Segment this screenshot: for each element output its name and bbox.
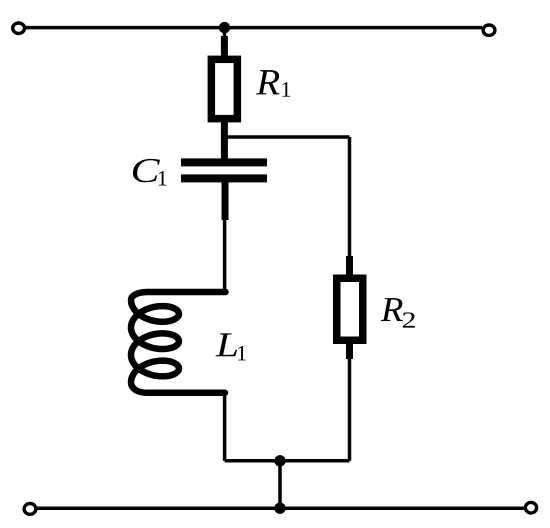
wire R1 to C1 lead [221, 122, 228, 159]
wire C1 bottom lead [222, 182, 229, 220]
wire junction vertical [278, 461, 282, 508]
label C1 [133, 159, 160, 182]
wire top horizontal [25, 26, 482, 30]
label R1 [256, 70, 280, 94]
wire C1 to L1 [223, 219, 227, 292]
node junction dot top [219, 22, 230, 33]
label L1 [216, 333, 238, 356]
wire bottom horizontal [36, 506, 525, 510]
wire R1 top lead [223, 28, 227, 40]
terminal bottom-left [24, 504, 36, 515]
terminal bottom-right [525, 502, 536, 513]
wire branch to R2 horizontal [225, 135, 350, 139]
wire R2 top vertical [348, 137, 352, 258]
node junction dot mid [274, 455, 285, 466]
wire R2 bottom vertical [348, 358, 352, 461]
wire bottom horizontal link [225, 459, 350, 463]
wire L1 bottom vertical [223, 393, 227, 461]
resistor R1 [211, 59, 237, 118]
terminal top-left [13, 23, 25, 33]
wire R2 bottom lead [346, 344, 353, 359]
resistor R2 [337, 278, 363, 340]
terminal top-right [483, 25, 495, 35]
inductor L1 [131, 292, 226, 393]
node junction dot bottom [274, 503, 285, 514]
capacitor C1 [181, 158, 267, 166]
label R2 [381, 298, 403, 321]
